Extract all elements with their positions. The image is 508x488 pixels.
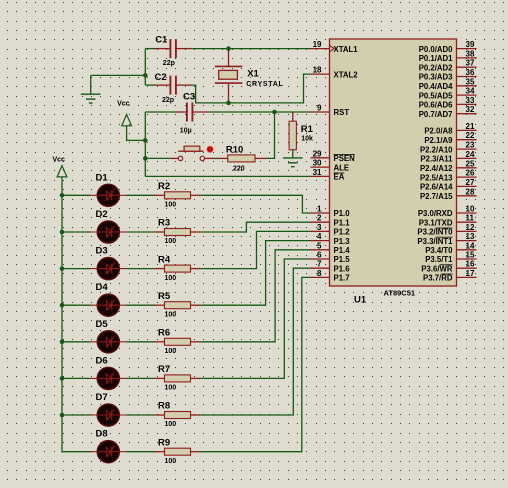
node junction Vcc tap	[143, 138, 148, 143]
wire R8 right lead	[191, 414, 201, 416]
svg-text:33: 33	[466, 96, 475, 105]
wire R4 left lead	[155, 268, 165, 270]
pin 26 P2.5/A13	[420, 169, 477, 183]
resistor R10 body	[228, 155, 255, 162]
svg-text:R3: R3	[158, 218, 170, 229]
capacitor C1 plates	[169, 39, 171, 58]
pin 2 P1.1	[311, 214, 351, 228]
svg-text:36: 36	[466, 68, 475, 77]
LED D4	[91, 294, 127, 316]
wire R3 left lead	[155, 231, 165, 233]
svg-text:29: 29	[313, 149, 322, 158]
pin 30 ALE	[311, 159, 350, 173]
pin 38 P0.1/AD1	[419, 49, 477, 63]
svg-text:100: 100	[165, 385, 177, 392]
push button switch	[178, 146, 204, 160]
pin 27 P2.6/A14	[420, 178, 477, 192]
svg-text:17: 17	[466, 269, 475, 278]
svg-text:D4: D4	[96, 282, 109, 293]
wire C3 right lead	[193, 111, 210, 113]
svg-text:R8: R8	[158, 401, 170, 412]
pin 5 P1.4	[311, 241, 351, 255]
pin 24 P2.3/A11	[420, 150, 476, 164]
power Vcc left rail	[57, 166, 67, 177]
wire R8 to P1.6	[200, 268, 310, 415]
chip U1 AT89C51 body	[330, 39, 457, 286]
svg-text:19: 19	[313, 40, 322, 49]
svg-text:P0.5/AD5: P0.5/AD5	[419, 91, 453, 100]
svg-text:22p: 22p	[162, 97, 174, 104]
wire C3 to RST pin	[210, 111, 311, 113]
node junction crystal bottom	[226, 101, 231, 106]
wire R3 right lead	[191, 231, 201, 233]
svg-text:34: 34	[466, 87, 475, 96]
svg-text:P2.6/A14: P2.6/A14	[420, 183, 453, 192]
wire to EA pin	[145, 175, 310, 177]
svg-text:P3.7/RD: P3.7/RD	[423, 274, 453, 283]
wire rail to D4	[62, 304, 91, 306]
wire D7 to R8	[127, 414, 156, 416]
capacitor C2 plates	[169, 76, 171, 95]
node junction crystal top	[226, 46, 231, 51]
wire rail to D1	[62, 194, 91, 196]
svg-text:31: 31	[313, 168, 322, 177]
svg-text:11: 11	[466, 214, 475, 223]
svg-text:100: 100	[165, 421, 177, 428]
wire D4 to R5	[127, 304, 156, 306]
svg-text:100: 100	[165, 202, 177, 209]
svg-text:21: 21	[466, 122, 475, 131]
wire R5 to P1.3	[200, 241, 310, 306]
svg-text:100: 100	[165, 458, 177, 465]
svg-text:1: 1	[317, 205, 322, 214]
svg-text:28: 28	[466, 187, 475, 196]
svg-text:26: 26	[466, 169, 475, 178]
svg-text:R7: R7	[158, 364, 170, 375]
svg-text:P2.4/A12: P2.4/A12	[420, 164, 453, 173]
svg-text:2: 2	[317, 214, 322, 223]
pin 3 P1.2	[311, 223, 351, 237]
wire R1 top lead	[292, 112, 294, 121]
svg-text:15: 15	[466, 251, 475, 260]
node junction rail D1	[60, 193, 65, 198]
wire R6 to P1.4	[200, 250, 310, 342]
svg-text:R1: R1	[301, 124, 314, 135]
svg-text:P0.6/AD6: P0.6/AD6	[419, 101, 453, 110]
svg-text:3: 3	[317, 223, 322, 232]
svg-text:P0.4/AD4: P0.4/AD4	[419, 82, 453, 91]
node junction rail D5	[60, 340, 65, 345]
svg-text:6: 6	[317, 251, 322, 260]
pin 31 EA	[311, 168, 345, 182]
pin 28 P2.7/A15	[420, 187, 477, 201]
svg-text:PSEN: PSEN	[334, 154, 356, 163]
wire rail to D7	[62, 414, 91, 416]
power Vcc top	[122, 115, 132, 126]
node junction rail D7	[60, 413, 65, 418]
svg-text:10k: 10k	[301, 136, 313, 143]
svg-text:D5: D5	[96, 319, 109, 330]
pin XTAL1 clock marker	[330, 45, 335, 51]
svg-text:10: 10	[466, 205, 475, 214]
svg-text:4: 4	[317, 232, 322, 241]
resistor R9 body	[165, 448, 191, 455]
resistor R5 body	[165, 302, 191, 309]
pin 6 P1.5	[311, 251, 351, 265]
svg-text:Vcc: Vcc	[53, 156, 66, 163]
pin 23 P2.2/A10	[420, 141, 477, 155]
wire D2 to R3	[127, 231, 156, 233]
svg-text:32: 32	[466, 105, 475, 114]
svg-text:13: 13	[466, 232, 475, 241]
pin 13 P3.3/INT1	[417, 232, 476, 246]
resistor R3 body	[165, 229, 191, 236]
pin 37 P0.2/AD2	[419, 59, 477, 73]
svg-text:12: 12	[466, 223, 475, 232]
resistor R6 body	[165, 338, 191, 345]
capacitor C3 plates	[186, 103, 188, 122]
wire R6 right lead	[191, 341, 201, 343]
ground GND2 under R1	[283, 158, 303, 167]
wire R2 left lead	[155, 194, 165, 196]
wire ground to C1C2 node	[91, 74, 146, 76]
wire C2 to XTAL2 pin	[191, 74, 311, 103]
push button red actuator dot	[207, 146, 214, 153]
svg-text:100: 100	[165, 275, 177, 282]
svg-text:100: 100	[165, 348, 177, 355]
svg-text:ALE: ALE	[334, 163, 350, 172]
svg-text:39: 39	[466, 40, 475, 49]
wire Vcc to C3 node	[127, 126, 146, 141]
resistor R1 body	[289, 121, 296, 150]
svg-text:D8: D8	[96, 429, 108, 440]
pin 19 XTAL1	[311, 40, 359, 54]
LED D8	[91, 441, 127, 463]
node junction rail D3	[60, 266, 65, 271]
svg-text:100: 100	[165, 311, 177, 318]
wire R3 to P1.1	[200, 222, 310, 232]
svg-text:XTAL1: XTAL1	[334, 45, 359, 54]
node junction C1C2-gnd	[143, 73, 148, 78]
pin 14 P3.4/T0	[425, 241, 476, 255]
svg-text:CRYSTAL: CRYSTAL	[246, 81, 283, 88]
svg-text:P1.1: P1.1	[334, 218, 351, 227]
wire R5 left lead	[155, 304, 165, 306]
svg-text:R10: R10	[226, 144, 243, 155]
wire R2 to P1.0	[200, 195, 310, 213]
svg-text:P1.4: P1.4	[334, 246, 351, 255]
svg-text:P1.2: P1.2	[334, 228, 351, 237]
svg-text:P3.1/TXD: P3.1/TXD	[419, 218, 453, 227]
pin 15 P3.5/T1	[425, 251, 476, 265]
wire D6 to R7	[127, 377, 156, 379]
pin 25 P2.4/A12	[420, 159, 477, 173]
wire R4 to P1.2	[200, 231, 310, 268]
svg-text:D2: D2	[96, 209, 108, 220]
pin 17 P3.7/RD	[423, 269, 476, 283]
svg-text:P2.2/A10: P2.2/A10	[420, 145, 453, 154]
svg-text:P1.7: P1.7	[334, 274, 350, 283]
ground GND1	[81, 94, 101, 103]
wire to C2	[145, 84, 154, 86]
wire R4 right lead	[191, 268, 201, 270]
svg-text:220: 220	[233, 166, 245, 173]
wire rail to D2	[62, 231, 91, 233]
svg-text:D7: D7	[96, 392, 108, 403]
svg-text:P1.3: P1.3	[334, 237, 351, 246]
svg-text:P3.3/INT1: P3.3/INT1	[417, 237, 453, 246]
svg-text:P0.1/AD1: P0.1/AD1	[419, 54, 453, 63]
LED D2	[91, 221, 127, 243]
node junction switch tap	[143, 156, 148, 161]
svg-text:24: 24	[466, 150, 475, 159]
svg-text:P2.3/A11: P2.3/A11	[420, 155, 453, 164]
svg-text:P2.0/A8: P2.0/A8	[424, 127, 453, 136]
wire R2 right lead	[191, 194, 201, 196]
pin 9 RST	[311, 104, 350, 118]
wire R1 bottom lead	[292, 150, 294, 158]
wire R10 left lead	[219, 157, 228, 159]
wire R7 to P1.5	[200, 259, 310, 378]
wire R6 left lead	[155, 341, 165, 343]
wire R10 right lead	[255, 157, 266, 159]
svg-text:P2.1/A9: P2.1/A9	[424, 136, 453, 145]
svg-text:D3: D3	[96, 246, 108, 257]
svg-text:P2.5/A13: P2.5/A13	[420, 173, 453, 182]
svg-text:AT89C51: AT89C51	[384, 289, 416, 298]
pin 39 P0.0/AD0	[419, 40, 477, 54]
svg-text:P3.6/WR: P3.6/WR	[421, 264, 453, 273]
svg-text:R5: R5	[158, 291, 171, 302]
pin 18 XTAL2	[311, 66, 359, 80]
wire C1 left lead	[155, 48, 170, 50]
pin 35 P0.4/AD4	[419, 77, 477, 91]
wire D8 to R9	[127, 451, 156, 453]
wire button to R10	[215, 157, 219, 159]
svg-text:38: 38	[466, 49, 475, 58]
svg-text:27: 27	[466, 178, 475, 187]
pin 36 P0.3/AD3	[419, 68, 477, 82]
node junction rail D2	[60, 230, 65, 235]
svg-text:P0.2/AD2: P0.2/AD2	[419, 63, 453, 72]
svg-text:10µ: 10µ	[180, 128, 192, 135]
svg-text:P0.3/AD3: P0.3/AD3	[419, 73, 453, 82]
wire R9 left lead	[155, 451, 165, 453]
wire node to button	[145, 157, 169, 159]
wire C2 right lead	[177, 84, 191, 86]
svg-text:P3.5/T1: P3.5/T1	[425, 255, 453, 264]
svg-text:P1.6: P1.6	[334, 264, 351, 273]
pin 29 PSEN	[311, 149, 356, 163]
wire D1 to R2	[127, 194, 156, 196]
svg-text:EA: EA	[334, 173, 345, 182]
svg-text:R9: R9	[158, 437, 170, 448]
svg-text:R4: R4	[158, 254, 171, 265]
LED D1	[91, 184, 127, 206]
wire R9 to P1.7	[200, 277, 310, 451]
pin 1 P1.0	[311, 205, 351, 219]
wire C1 to XTAL1 pin	[192, 48, 310, 50]
svg-text:8: 8	[317, 269, 322, 278]
wire R10 to RST node	[266, 112, 274, 158]
svg-text:P3.2/INT0: P3.2/INT0	[417, 228, 453, 237]
node junction rail D6	[60, 376, 65, 381]
wire to C3	[145, 111, 176, 113]
svg-text:P3.0/RXD: P3.0/RXD	[418, 209, 453, 218]
resistor R2 body	[165, 192, 191, 199]
pin 21 P2.0/A8	[424, 122, 476, 136]
node junction rail D4	[60, 303, 65, 308]
svg-text:P0.7/AD7: P0.7/AD7	[419, 110, 453, 119]
svg-text:7: 7	[317, 260, 322, 269]
wire C2 left lead	[155, 84, 170, 86]
svg-text:37: 37	[466, 59, 475, 68]
wire R7 left lead	[155, 377, 165, 379]
wire button right lead	[205, 157, 215, 159]
svg-text:100: 100	[165, 238, 177, 245]
svg-text:U1: U1	[354, 295, 367, 306]
wire rail to D6	[62, 377, 91, 379]
LED D3	[91, 258, 127, 280]
svg-text:Vcc: Vcc	[117, 101, 130, 108]
wire rail to D3	[62, 268, 91, 270]
pin 4 P1.3	[311, 232, 351, 246]
wire R7 right lead	[191, 377, 201, 379]
LED D6	[91, 367, 127, 389]
svg-text:D1: D1	[96, 172, 109, 183]
wire D5 to R6	[127, 341, 156, 343]
svg-text:P3.4/T0: P3.4/T0	[425, 246, 453, 255]
wire D3 to R4	[127, 268, 156, 270]
wire rail to D5	[62, 341, 91, 343]
resistor R7 body	[165, 375, 191, 382]
svg-text:22p: 22p	[163, 60, 175, 67]
svg-text:R6: R6	[158, 328, 170, 339]
pin 10 P3.0/RXD	[418, 205, 477, 219]
svg-text:18: 18	[313, 66, 322, 75]
wire Vcc rail	[62, 177, 91, 452]
pin 11 P3.1/TXD	[419, 214, 477, 228]
wire ground stem	[90, 75, 92, 94]
wire C3-switch-EA vertical	[144, 112, 146, 176]
svg-text:C1: C1	[155, 35, 168, 46]
pin 8 P1.7	[311, 269, 350, 283]
pin 34 P0.5/AD5	[419, 87, 477, 101]
svg-text:RST: RST	[334, 108, 350, 117]
pin 33 P0.6/AD6	[419, 96, 477, 110]
pin 22 P2.1/A9	[424, 131, 476, 145]
LED D7	[91, 404, 127, 426]
pin 32 P0.7/AD7	[419, 105, 477, 119]
svg-text:R2: R2	[158, 181, 170, 192]
svg-text:P2.7/A15: P2.7/A15	[420, 192, 453, 201]
svg-text:C3: C3	[183, 92, 195, 103]
wire to C1	[145, 48, 154, 50]
svg-text:P1.0: P1.0	[334, 209, 351, 218]
LED D5	[91, 331, 127, 353]
svg-text:X1: X1	[247, 69, 259, 80]
wire C1 right lead	[177, 48, 193, 50]
node junction RST-R10	[272, 110, 277, 115]
resistor R8 body	[165, 412, 191, 419]
wire R5 right lead	[191, 304, 201, 306]
svg-text:35: 35	[466, 77, 475, 86]
svg-text:14: 14	[466, 241, 475, 250]
pin 12 P3.2/INT0	[417, 223, 476, 237]
svg-text:XTAL2: XTAL2	[334, 70, 359, 79]
svg-text:22: 22	[466, 131, 475, 140]
resistor R4 body	[165, 265, 191, 272]
wire R8 left lead	[155, 414, 165, 416]
wire C1-C2 vertical	[144, 49, 146, 86]
crystal X1	[215, 49, 243, 103]
svg-text:D6: D6	[96, 355, 108, 366]
svg-text:23: 23	[466, 141, 475, 150]
svg-text:30: 30	[313, 159, 322, 168]
pin 16 P3.6/WR	[421, 260, 476, 274]
svg-text:P1.5: P1.5	[334, 255, 351, 264]
wire button left lead	[170, 157, 179, 159]
wire C3 left lead	[177, 111, 187, 113]
svg-text:25: 25	[466, 159, 475, 168]
wire R9 right lead	[191, 451, 201, 453]
svg-text:5: 5	[317, 241, 322, 250]
svg-text:C2: C2	[155, 72, 167, 83]
svg-text:P0.0/AD0: P0.0/AD0	[419, 45, 453, 54]
svg-text:9: 9	[317, 104, 322, 113]
svg-text:16: 16	[466, 260, 475, 269]
pin 7 P1.6	[311, 260, 351, 274]
